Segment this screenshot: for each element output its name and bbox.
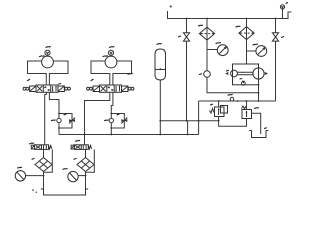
shutoff valve SV1 xyxy=(183,33,189,41)
junction pump outlet / suction line xyxy=(258,92,260,94)
junction bus A / shutoff drop xyxy=(187,134,189,136)
relief valve R2 xyxy=(242,106,252,119)
pressure gauge PG4 xyxy=(256,46,267,57)
accumulator AC1 xyxy=(155,49,166,80)
junction bus A / accumulator line xyxy=(159,134,161,136)
junction bus B / relief R1 xyxy=(218,100,220,102)
motor M1 xyxy=(42,56,54,68)
wire F3 down to tank xyxy=(43,172,45,192)
vent breather on manifold xyxy=(280,5,284,19)
pilot circles left end of V2 xyxy=(87,87,93,90)
wire V4 to filter F4 xyxy=(85,149,87,157)
wire R1 bottom port xyxy=(219,117,247,127)
shutoff valve SV2 xyxy=(272,33,278,41)
arrow right of motor xyxy=(265,72,268,75)
pilot circles right end of V1 xyxy=(65,87,71,90)
label at V1 right end xyxy=(59,83,61,86)
label above M2 xyxy=(110,46,114,49)
pressure gauge PG3 xyxy=(217,45,228,56)
wire shutoff SV1 drop xyxy=(187,19,188,135)
solenoid left of V1 xyxy=(30,86,36,92)
label filter F4 xyxy=(74,158,76,161)
filter F2 xyxy=(239,27,254,40)
solenoid right of V1 xyxy=(58,86,64,92)
wire V2 right port down to check valve CV2 xyxy=(111,92,113,118)
label SV2 xyxy=(282,36,284,39)
label pump xyxy=(227,69,229,72)
label left of CV2 xyxy=(105,119,109,122)
filter F4 xyxy=(77,158,94,172)
wire bus A xyxy=(59,134,199,136)
label tank T2 xyxy=(265,127,267,130)
solenoid right of V2 xyxy=(122,86,128,92)
wire manifold xyxy=(168,11,292,19)
junction mid line / bus B drop xyxy=(198,120,200,122)
wire to gauge PG4 xyxy=(247,50,257,52)
wire pump outlet down xyxy=(258,79,260,101)
label accumulator AC1 xyxy=(157,43,161,46)
wire V1 left port down to valve V3 xyxy=(45,92,47,145)
valve V4 2-position solenoid valve xyxy=(74,145,88,150)
label valve V1 xyxy=(28,79,30,80)
valve V1 4/3 solenoid directional valve xyxy=(36,85,58,92)
crossing hop on bus B xyxy=(230,97,234,101)
solenoid of V3 xyxy=(31,145,34,149)
wire V1 right port down to check valve xyxy=(49,92,59,118)
tank T2 xyxy=(249,131,268,138)
label valve V2 xyxy=(91,79,93,80)
motor M2 xyxy=(105,56,117,68)
wire shutoff SV2 drop xyxy=(275,19,277,102)
check valve CV2 xyxy=(109,118,113,122)
label near V2 right loop corner xyxy=(128,72,132,75)
label SV1 xyxy=(179,35,181,38)
junction on F4 outlet xyxy=(85,175,87,177)
label relief R1 xyxy=(211,103,213,106)
drain vent on pump frame xyxy=(242,81,246,86)
valve V2 4/3 solenoid directional valve xyxy=(100,85,122,92)
pressure gauge PG2 xyxy=(68,171,78,181)
wire M2 right port xyxy=(113,61,132,85)
junction accumulator line / mid line xyxy=(159,120,161,122)
motor M3 big circle xyxy=(253,68,264,79)
drain mini-circle on motor M2 xyxy=(108,50,113,55)
wire mid line xyxy=(160,120,218,122)
label valve V4 xyxy=(76,139,80,142)
check ball on F1 drop xyxy=(204,71,211,78)
junction bus B / pump line xyxy=(258,100,260,102)
bypass wire around F3 from V3 spring side xyxy=(44,149,53,172)
label gauge PG2 xyxy=(63,168,67,171)
wire to gauge PG2 xyxy=(78,175,85,177)
junction SV1 line / mid line xyxy=(186,120,188,122)
wire M1 left port xyxy=(28,61,47,85)
label filter F3 xyxy=(32,158,34,161)
label above TH2 xyxy=(117,113,119,116)
label tank T1 xyxy=(32,189,34,191)
wire below CV1 to bus xyxy=(58,123,60,135)
wire R2 side port to tank T2 xyxy=(252,113,261,134)
arrow left of pump xyxy=(225,72,228,75)
wire bus B xyxy=(199,100,276,102)
drain mini-circle on motor M1 xyxy=(45,50,50,55)
wire to gauge PG3 xyxy=(207,49,218,51)
pump P1 small circle xyxy=(231,70,238,77)
pilot circles right end of V2 xyxy=(128,87,134,90)
throttle TH2 in bypass xyxy=(121,118,127,124)
pilot circles left end of V1 xyxy=(23,87,29,90)
label check ball xyxy=(200,73,202,76)
wire filter F2 drop xyxy=(246,19,248,65)
label above TH1 xyxy=(64,113,66,116)
junction pump outlet / frame xyxy=(258,84,260,86)
label gauge PG4 xyxy=(253,43,257,46)
junction manifold / filter F1 xyxy=(206,18,208,20)
bypass throttle loop around CV1 xyxy=(58,113,72,129)
throttle TH1 in bypass xyxy=(69,118,75,124)
label valve V3 xyxy=(30,142,34,145)
junction manifold / shutoff SV2 xyxy=(275,18,277,20)
junction bus A / CV2 xyxy=(110,134,112,136)
label m below xyxy=(228,93,232,96)
relief valve R1 (pilot operated) xyxy=(210,106,228,117)
wire filter F1 drop xyxy=(207,19,259,93)
label filter F2 xyxy=(236,25,240,28)
junction on F3 outlet xyxy=(43,175,45,177)
label gauge PG3 xyxy=(216,42,220,45)
pressure gauge PG1 xyxy=(15,171,25,181)
wire below CV2 to bus xyxy=(110,123,112,135)
bypass wire around F4 from V4 spring side xyxy=(86,149,95,172)
label left of CV1 xyxy=(52,119,56,122)
label manifold left end xyxy=(170,6,172,8)
junction bus B / dot xyxy=(237,100,239,102)
junction bus B / relief R2 xyxy=(246,100,248,102)
junction manifold / filter F2 xyxy=(246,18,248,20)
valve V3 2-position solenoid valve xyxy=(35,145,49,150)
bypass throttle loop around CV2 xyxy=(110,113,124,129)
spring of V4 xyxy=(88,145,91,149)
label motor M1 xyxy=(40,55,45,58)
label filter F1 xyxy=(199,24,203,27)
label drain vent xyxy=(240,78,242,81)
filter F3 xyxy=(35,158,52,172)
check valve CV1 xyxy=(57,118,61,122)
shaft coupling xyxy=(237,72,253,74)
filter F1 xyxy=(199,27,214,40)
wire R2 top port xyxy=(246,101,248,110)
junction manifold / shutoff SV1 xyxy=(186,18,188,20)
wire M2 left port xyxy=(91,61,110,85)
label gauge PG1 xyxy=(18,166,22,169)
label vent xyxy=(286,2,288,5)
pump frame xyxy=(233,64,259,85)
solenoid left of V2 xyxy=(93,86,99,92)
wire to gauge PG1 xyxy=(26,175,44,177)
wire V3 to filter F3 xyxy=(43,149,45,157)
junction bus A / V4 feed xyxy=(84,134,86,136)
solenoid of V4 xyxy=(71,145,74,149)
wire bus B left drop xyxy=(198,101,200,135)
tank T1 xyxy=(41,189,88,195)
wire V2 left port stepping left down to valve V4 xyxy=(85,92,110,145)
label above M1 xyxy=(46,46,50,49)
spring of V3 xyxy=(49,145,52,149)
wire R1 top port xyxy=(218,101,220,107)
wire M1 right port xyxy=(49,61,68,85)
dot near tank T1 label xyxy=(36,192,37,193)
junction R1 bottom / mid line xyxy=(218,120,220,122)
label relief R2 xyxy=(255,107,259,110)
wire accumulator down to bus A xyxy=(159,80,161,135)
label motor M2 xyxy=(103,55,108,58)
wire F4 down to tank xyxy=(85,172,87,192)
